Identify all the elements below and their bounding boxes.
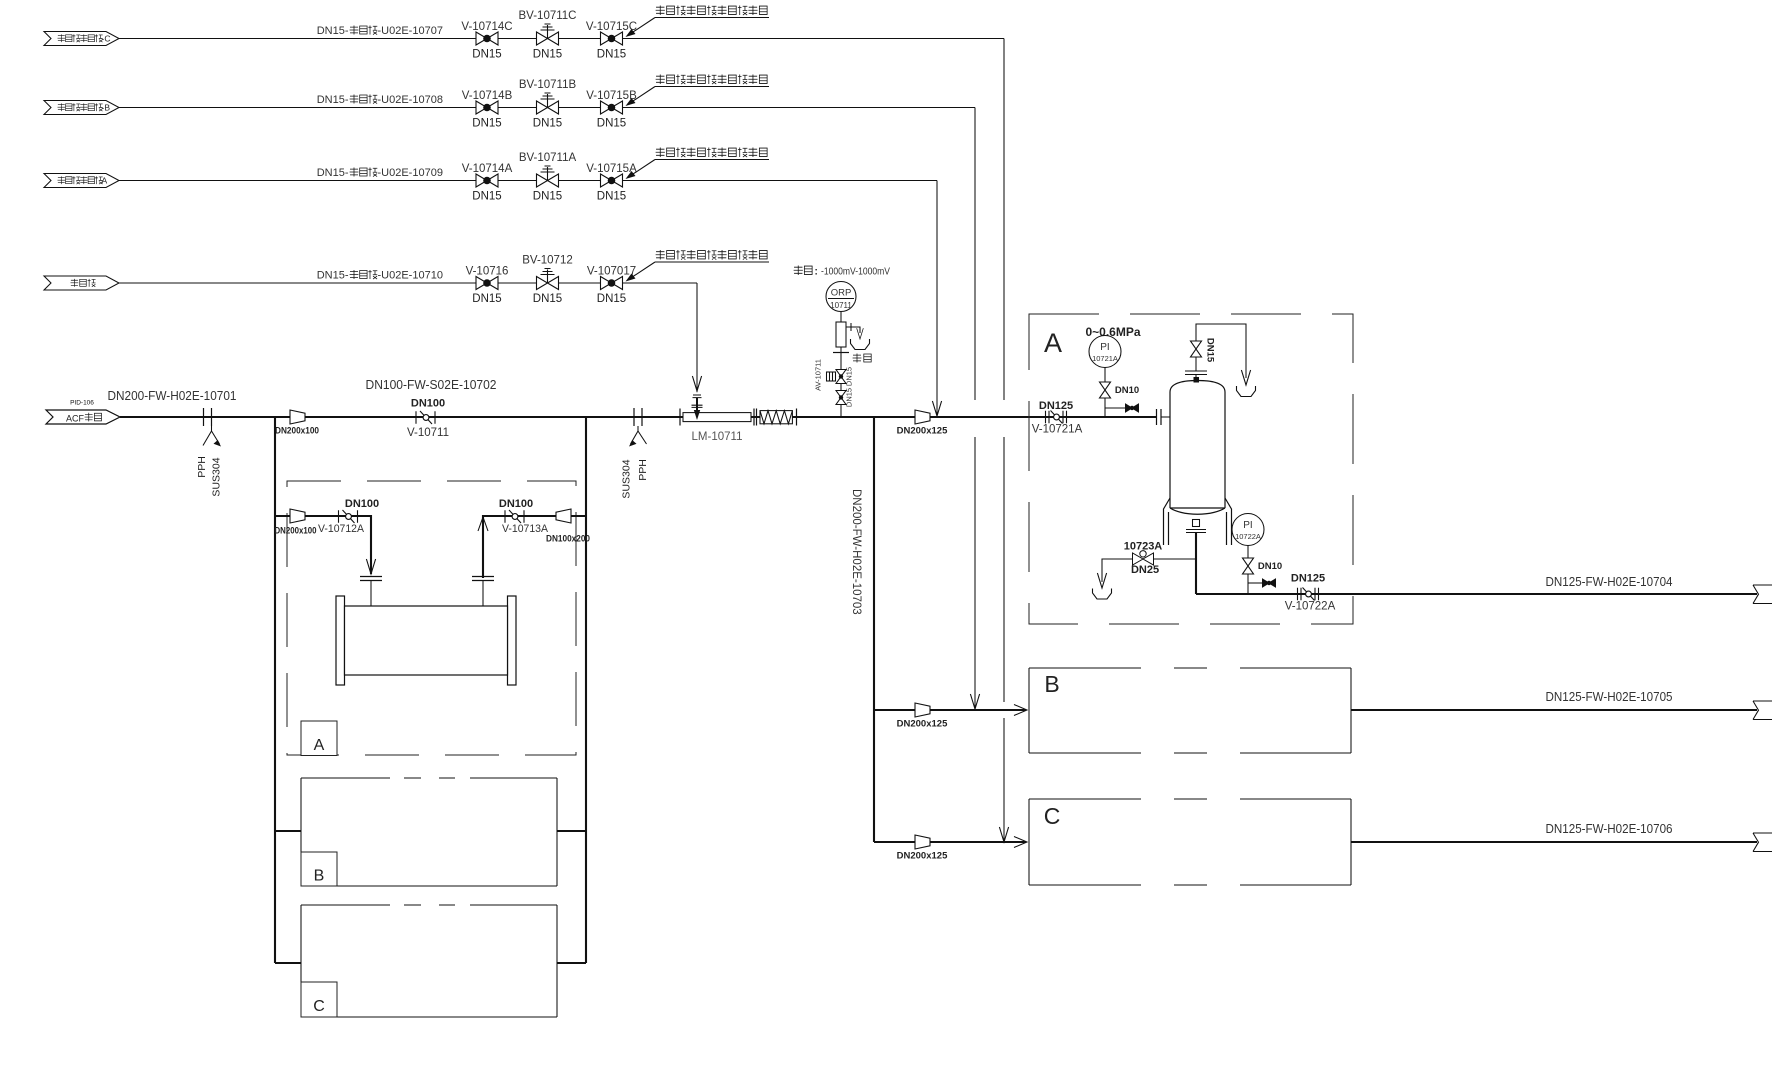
svg-text:V-10716: V-10716 xyxy=(466,266,509,278)
svg-text:DN15: DN15 xyxy=(533,118,562,130)
svg-text:0~0.6MPa: 0~0.6MPa xyxy=(1085,325,1140,339)
svg-text:DN15: DN15 xyxy=(845,367,854,386)
svg-text:10721A: 10721A xyxy=(1092,354,1118,363)
pipe DN15 line C xyxy=(119,38,1004,40)
flange pair at vessel inlet xyxy=(1157,409,1162,425)
svg-text:DN200-FW-H02E-10701: DN200-FW-H02E-10701 xyxy=(108,388,237,403)
ORP electrode holder xyxy=(836,322,846,347)
svg-text:V-10714C: V-10714C xyxy=(461,21,512,33)
svg-text:-B: -B xyxy=(102,103,111,113)
svg-text:DN15-: DN15- xyxy=(317,167,349,179)
svg-text:-U02E-10710: -U02E-10710 xyxy=(378,270,443,282)
pipe DN200-FW-H02E-10703 drop xyxy=(873,417,875,842)
pipe DN15 line A xyxy=(119,180,937,182)
reducer DN100x200 xyxy=(556,509,571,523)
svg-text:V-10715C: V-10715C xyxy=(586,21,637,33)
source flag line A xyxy=(44,174,119,188)
annotation: valve group near main pipe, line B xyxy=(656,75,665,84)
svg-text:B: B xyxy=(1044,671,1059,697)
svg-text:DN100: DN100 xyxy=(345,498,379,510)
pipe: train A feed xyxy=(275,516,371,574)
pipe feed train B (right) xyxy=(874,709,1026,711)
svg-text:PPH: PPH xyxy=(637,459,649,481)
source flag line B xyxy=(44,101,119,115)
annotation: valve group near main pipe, line A xyxy=(656,148,665,157)
svg-text:DN10: DN10 xyxy=(1115,385,1139,396)
static mixer LM-10711 xyxy=(683,413,751,422)
node label A xyxy=(301,721,337,756)
valve V-10714A DN15 ball valve xyxy=(476,174,498,187)
svg-text:SUS304: SUS304 xyxy=(621,459,633,498)
svg-text:DN15: DN15 xyxy=(472,49,501,61)
svg-text:DN15: DN15 xyxy=(472,118,501,130)
svg-text:DN15: DN15 xyxy=(472,191,501,203)
filter vessel train A (horizontal) xyxy=(336,596,345,685)
insulating joint PPH/SUS304 no.1 xyxy=(204,408,212,426)
wire: dosing line C drop xyxy=(1003,39,1005,844)
svg-text:DN125-FW-H02E-10705: DN125-FW-H02E-10705 xyxy=(1546,690,1673,704)
svg-text:DN15: DN15 xyxy=(597,293,626,305)
wire: dosing line B drop xyxy=(974,108,976,711)
flange pair before mixer xyxy=(679,409,681,426)
svg-text:V-10711: V-10711 xyxy=(407,427,449,439)
svg-text:-U02E-10709: -U02E-10709 xyxy=(378,167,443,179)
valve DN15 vent xyxy=(1191,341,1202,357)
svg-text:DN100: DN100 xyxy=(411,398,445,410)
svg-text:ORP: ORP xyxy=(831,288,852,299)
funnel drain top right xyxy=(1237,386,1256,397)
svg-text:DN200-FW-H02E-10703: DN200-FW-H02E-10703 xyxy=(850,489,862,615)
pipe DN125-FW-H02E-10705 product B xyxy=(1351,709,1757,711)
pipe DN125-FW-H02E-10706 product C xyxy=(1351,841,1757,843)
svg-text:DN15-: DN15- xyxy=(317,94,349,106)
valve BV-10711C DN15 needle valve xyxy=(537,24,559,45)
svg-text:-C: -C xyxy=(102,34,111,44)
svg-text:DN100: DN100 xyxy=(499,498,533,510)
instrument PI 10722A xyxy=(1232,514,1264,546)
svg-text:DN100-FW-S02E-10702: DN100-FW-S02E-10702 xyxy=(366,377,497,392)
svg-text:DN200x125: DN200x125 xyxy=(897,426,948,437)
svg-text:DN200x100: DN200x100 xyxy=(275,426,319,437)
svg-text:DN15: DN15 xyxy=(533,293,562,305)
insulating joint SUS304/PPH no.2 xyxy=(634,408,642,426)
svg-text:DN15: DN15 xyxy=(533,191,562,203)
svg-text:DN125-FW-H02E-10706: DN125-FW-H02E-10706 xyxy=(1546,822,1673,836)
svg-text:-1000mV-1000mV: -1000mV-1000mV xyxy=(821,267,890,278)
valve AV-10711 DN15 with actuator xyxy=(836,370,846,384)
off-page connector 10704 xyxy=(1753,585,1772,604)
dashed package box RO train A xyxy=(1029,314,1353,624)
svg-text:V-10715B: V-10715B xyxy=(586,90,637,102)
svg-text:V-10722A: V-10722A xyxy=(1285,601,1336,613)
equipment box RO train C xyxy=(1029,799,1351,885)
svg-text:A: A xyxy=(1044,328,1062,358)
valve BV-10711B DN15 needle valve xyxy=(537,93,559,114)
svg-text:DN15: DN15 xyxy=(533,49,562,61)
svg-text:C: C xyxy=(1044,803,1061,829)
svg-text:B: B xyxy=(314,868,325,885)
svg-text:SUS304: SUS304 xyxy=(211,457,223,496)
svg-text:PPH: PPH xyxy=(196,456,208,478)
svg-text:PID-106: PID-106 xyxy=(70,400,94,407)
svg-text:DN15: DN15 xyxy=(597,49,626,61)
pipe DN15 line R xyxy=(119,282,697,284)
svg-text:DN15: DN15 xyxy=(845,388,854,407)
svg-text:DN25: DN25 xyxy=(1131,564,1159,576)
pipe feed train C (right) xyxy=(874,841,1026,843)
valve V-10714C DN15 ball valve xyxy=(476,32,498,45)
valve V-10715A DN15 ball valve xyxy=(601,174,623,187)
source flag line C xyxy=(44,32,119,46)
svg-text:ACF: ACF xyxy=(66,414,85,424)
svg-text:A: A xyxy=(102,176,108,186)
pipe stubs train B xyxy=(275,830,301,832)
valve BV-10712 DN15 needle valve xyxy=(537,269,559,290)
svg-text:DN125-FW-H02E-10704: DN125-FW-H02E-10704 xyxy=(1546,575,1673,589)
svg-text:10723A: 10723A xyxy=(1124,541,1163,553)
annotation: valve group near main pipe, line C xyxy=(656,6,665,15)
svg-text:DN15: DN15 xyxy=(1205,338,1216,363)
pipe: filter return header xyxy=(585,417,587,963)
injection quill into mixer xyxy=(692,395,703,407)
svg-text:DN15: DN15 xyxy=(597,191,626,203)
flexible connector / expansion coil xyxy=(760,411,792,424)
svg-text:-U02E-10708: -U02E-10708 xyxy=(378,94,443,106)
svg-text:10722A: 10722A xyxy=(1235,532,1261,541)
svg-text:10711: 10711 xyxy=(830,301,852,310)
svg-text:DN200x125: DN200x125 xyxy=(897,719,948,730)
svg-text:BV-10711C: BV-10711C xyxy=(519,10,577,22)
svg-text:DN200x125: DN200x125 xyxy=(897,851,948,862)
svg-text:V-107017: V-107017 xyxy=(587,266,636,278)
svg-text:V-10714B: V-10714B xyxy=(462,90,513,102)
svg-text:V-10712A: V-10712A xyxy=(318,523,365,535)
wire: reductant dosing drop to mixer xyxy=(696,283,698,392)
source flag line R xyxy=(44,276,119,290)
svg-text::: : xyxy=(815,267,818,278)
svg-text:-U02E-10707: -U02E-10707 xyxy=(378,25,443,37)
svg-text:BV-10711A: BV-10711A xyxy=(519,152,577,164)
valve V-10714B DN15 ball valve xyxy=(476,101,498,114)
dashed package box train A xyxy=(287,481,576,755)
pipe DN200-FW-H02E-10701 main line xyxy=(120,416,1156,418)
valve DN10 gauge isolation xyxy=(1243,558,1254,574)
svg-text:DN125: DN125 xyxy=(1039,400,1073,412)
svg-text:PI: PI xyxy=(1243,520,1252,531)
equipment box RO train B xyxy=(1029,668,1351,753)
reducer DN200x125 on main xyxy=(915,410,930,424)
pipe: filter feed header (down) xyxy=(274,417,276,963)
svg-text:A: A xyxy=(314,737,325,754)
svg-text:DN15: DN15 xyxy=(597,118,626,130)
svg-text:C: C xyxy=(313,998,325,1015)
svg-text:V-10721A: V-10721A xyxy=(1032,424,1083,436)
svg-text:V-10714A: V-10714A xyxy=(462,163,513,175)
svg-text:DN125: DN125 xyxy=(1291,573,1325,585)
vessel legs xyxy=(1164,498,1171,545)
vessel top nozzle and vent line xyxy=(1194,377,1200,383)
drain valve on gauge line xyxy=(1105,407,1125,409)
node PID-106 source flag ACF product water xyxy=(46,410,120,424)
svg-text:DN15-: DN15- xyxy=(317,25,349,37)
svg-text:BV-10712: BV-10712 xyxy=(522,255,573,267)
vessel bottom nozzle xyxy=(1193,520,1200,527)
pipe DN15 line B xyxy=(119,107,975,109)
wire: ORP branch from main line xyxy=(840,312,842,418)
drain valve 10723A DN25 xyxy=(1102,559,1196,582)
svg-text:V-10713A: V-10713A xyxy=(502,523,549,535)
svg-text:DN100x200: DN100x200 xyxy=(546,534,590,545)
pipe from vessel bottom xyxy=(1195,533,1197,594)
vessel: cartridge filter (vertical) xyxy=(1170,381,1225,509)
valve DN10 gauge isolation xyxy=(1100,382,1111,398)
svg-text:V-10715A: V-10715A xyxy=(586,163,637,175)
pipe stubs train C xyxy=(275,962,301,964)
wire: dosing line A drop xyxy=(936,181,938,417)
equipment box train B xyxy=(301,778,557,886)
svg-text:DN15: DN15 xyxy=(472,293,501,305)
pipe DN125-FW-H02E-10704 product A xyxy=(1196,593,1757,595)
valve DN15 sample xyxy=(836,391,846,405)
valve V-10716 DN15 ball valve xyxy=(476,277,498,290)
valve V-10715B DN15 ball valve xyxy=(601,101,623,114)
valve V-107017 DN15 ball valve xyxy=(601,277,623,290)
valve BV-10711A DN15 needle valve xyxy=(537,166,559,187)
svg-text:DN15-: DN15- xyxy=(317,270,349,282)
equipment box train C xyxy=(301,905,557,1017)
valve V-10715C DN15 ball valve xyxy=(601,32,623,45)
funnel drain bottom xyxy=(1093,589,1112,600)
svg-text:LM-10711: LM-10711 xyxy=(692,431,743,443)
annotation: valve group near main pipe, line R xyxy=(656,250,665,259)
reducer DN200x100 xyxy=(290,410,305,424)
svg-text:PI: PI xyxy=(1100,342,1109,353)
svg-text:AV-10711: AV-10711 xyxy=(814,359,823,391)
instrument ORP 10711 with range annotation xyxy=(794,266,803,275)
pipe: train A return xyxy=(482,581,484,606)
svg-text:DN10: DN10 xyxy=(1258,561,1282,572)
svg-text:BV-10711B: BV-10711B xyxy=(519,79,577,91)
svg-text:DN200x100: DN200x100 xyxy=(275,526,317,537)
drain line to trench xyxy=(846,323,860,333)
